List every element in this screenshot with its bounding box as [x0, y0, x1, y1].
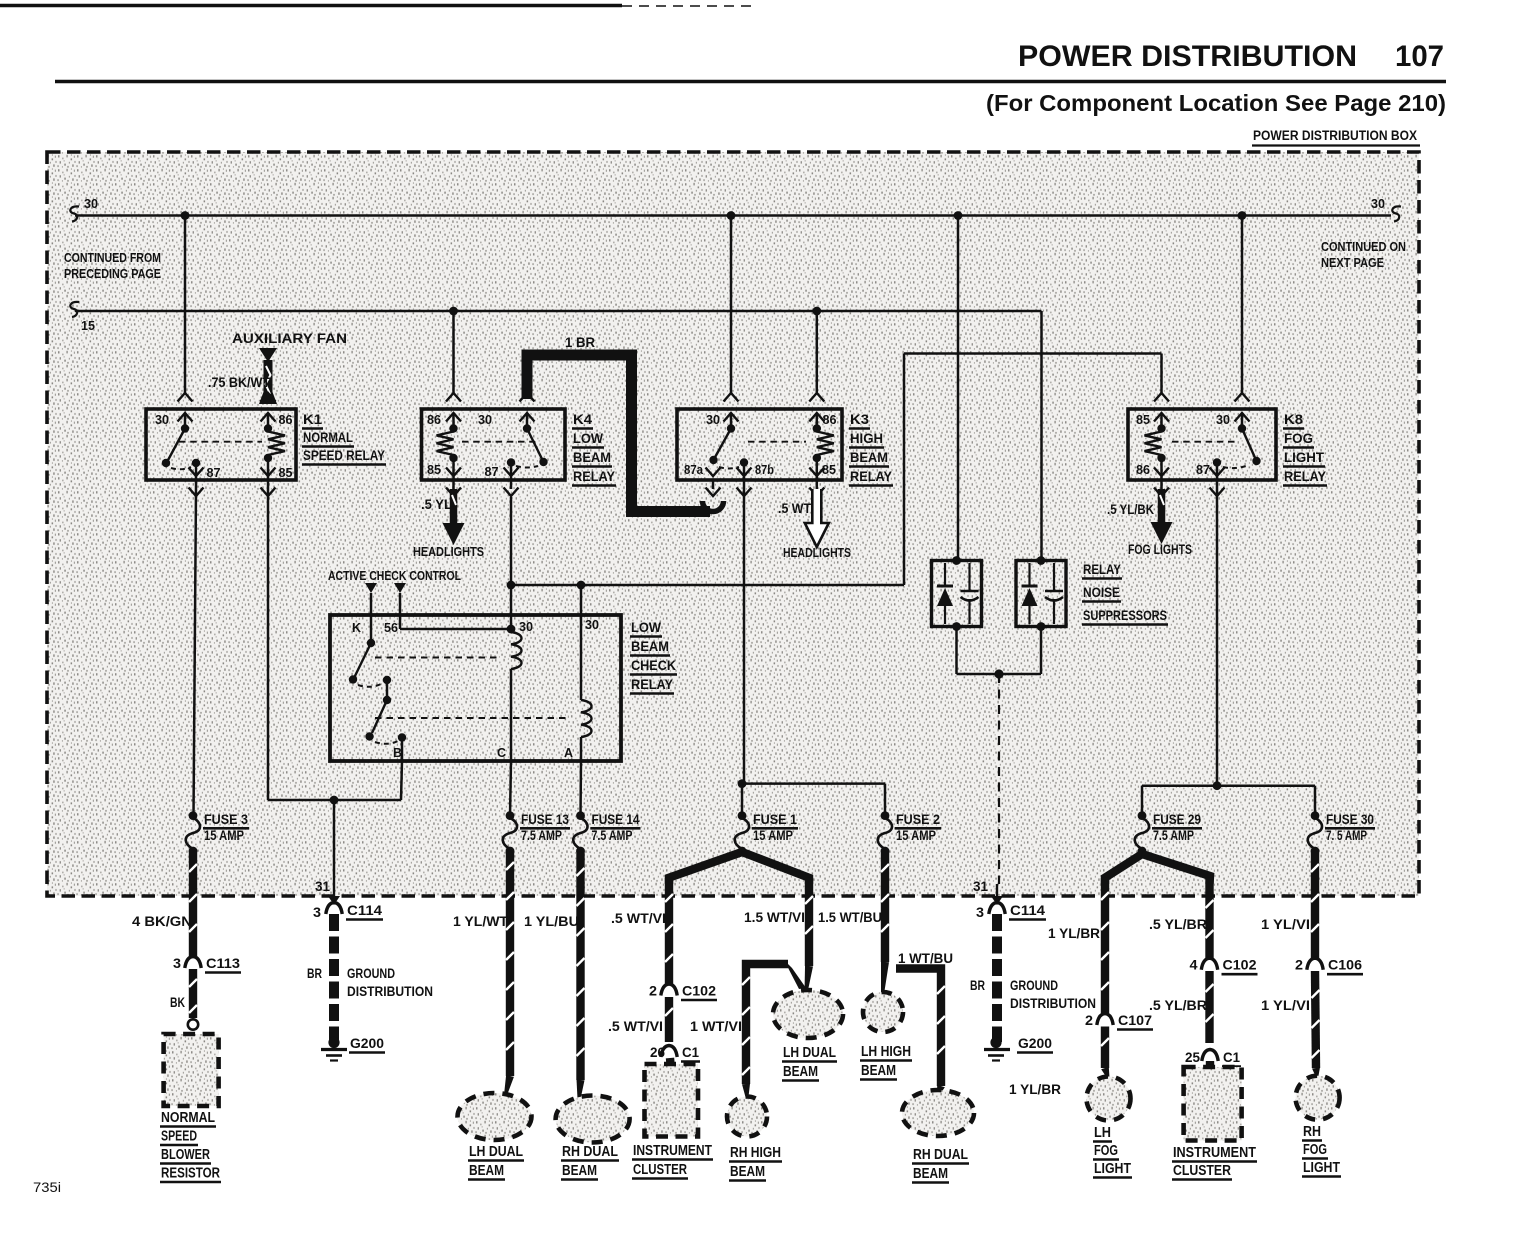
svg-text:1 WT/VI: 1 WT/VI [690, 1019, 742, 1034]
svg-text:K4: K4 [573, 411, 592, 427]
svg-text:C106: C106 [1328, 958, 1363, 973]
svg-text:RH HIGH: RH HIGH [730, 1145, 781, 1161]
svg-text:.5 YL/BK: .5 YL/BK [1107, 502, 1154, 517]
svg-text:SPEED RELAY: SPEED RELAY [303, 447, 386, 463]
svg-text:LOW: LOW [573, 430, 604, 446]
svg-text:7.5 AMP: 7.5 AMP [592, 828, 633, 843]
svg-text:(For Component Location See Pa: (For Component Location See Page 210) [986, 90, 1446, 116]
svg-text:BEAM: BEAM [913, 1166, 948, 1182]
svg-text:.5 WT/VI: .5 WT/VI [611, 911, 666, 926]
svg-text:15: 15 [81, 319, 95, 333]
svg-text:1 YL/VI: 1 YL/VI [1261, 998, 1310, 1013]
svg-text:RELAY: RELAY [850, 468, 893, 484]
svg-text:FUSE 3: FUSE 3 [204, 812, 248, 827]
svg-text:C1: C1 [682, 1045, 699, 1060]
svg-text:C102: C102 [1223, 958, 1257, 973]
svg-text:85: 85 [279, 466, 293, 480]
svg-text:LOW: LOW [631, 619, 662, 635]
svg-text:.5 YL: .5 YL [421, 497, 452, 512]
svg-text:C114: C114 [1010, 903, 1046, 918]
svg-text:AUXILIARY FAN: AUXILIARY FAN [232, 331, 347, 346]
svg-text:1 BR: 1 BR [565, 335, 595, 350]
svg-text:RELAY: RELAY [631, 676, 674, 692]
svg-text:HEADLIGHTS: HEADLIGHTS [783, 546, 851, 560]
svg-text:30: 30 [585, 618, 599, 632]
svg-text:1 YL/VI: 1 YL/VI [1261, 917, 1310, 932]
svg-text:SUPPRESSORS: SUPPRESSORS [1083, 607, 1167, 623]
svg-text:C: C [497, 746, 506, 760]
svg-text:30: 30 [84, 197, 98, 211]
svg-text:B: B [393, 746, 402, 760]
svg-text:31: 31 [315, 879, 330, 894]
svg-text:FOG LIGHTS: FOG LIGHTS [1128, 542, 1192, 557]
svg-text:FUSE 29: FUSE 29 [1153, 812, 1201, 827]
svg-text:BEAM: BEAM [861, 1063, 896, 1079]
svg-text:BR: BR [307, 966, 322, 981]
svg-text:HIGH: HIGH [850, 430, 883, 446]
svg-text:25: 25 [1185, 1050, 1200, 1065]
svg-text:C102: C102 [682, 984, 716, 999]
svg-text:LH DUAL: LH DUAL [469, 1144, 523, 1160]
svg-text:1 YL/WT: 1 YL/WT [453, 914, 509, 929]
svg-text:RH DUAL: RH DUAL [913, 1147, 968, 1163]
svg-text:FOG: FOG [1303, 1142, 1327, 1158]
svg-text:LH: LH [1094, 1125, 1111, 1141]
svg-text:85: 85 [1136, 413, 1150, 427]
svg-text:BEAM: BEAM [562, 1163, 597, 1179]
svg-text:DISTRIBUTION: DISTRIBUTION [347, 984, 433, 999]
svg-text:G200: G200 [350, 1036, 384, 1051]
svg-text:PRECEDING PAGE: PRECEDING PAGE [64, 267, 161, 281]
svg-text:56: 56 [384, 621, 398, 635]
svg-text:K1: K1 [303, 411, 322, 427]
svg-text:BEAM: BEAM [631, 638, 669, 654]
svg-text:INSTRUMENT: INSTRUMENT [633, 1143, 712, 1159]
svg-text:1 WT/BU: 1 WT/BU [898, 951, 953, 966]
svg-text:3: 3 [173, 956, 182, 971]
svg-text:.5 YL/BR: .5 YL/BR [1149, 917, 1207, 932]
svg-text:87a: 87a [684, 463, 704, 477]
svg-text:NORMAL: NORMAL [161, 1110, 215, 1126]
svg-text:30: 30 [1216, 413, 1230, 427]
svg-text:RELAY: RELAY [1284, 468, 1327, 484]
svg-text:ACTIVE CHECK CONTROL: ACTIVE CHECK CONTROL [328, 569, 461, 583]
svg-text:C107: C107 [1118, 1013, 1152, 1028]
svg-text:30: 30 [478, 413, 492, 427]
svg-text:30: 30 [519, 620, 533, 634]
svg-text:CHECK: CHECK [631, 657, 676, 673]
svg-text:86: 86 [823, 413, 837, 427]
svg-text:BEAM: BEAM [573, 449, 611, 465]
svg-text:87: 87 [1196, 463, 1210, 477]
svg-text:87: 87 [485, 465, 499, 479]
svg-text:GROUND: GROUND [347, 966, 395, 981]
svg-text:15 AMP: 15 AMP [896, 828, 936, 843]
svg-text:26: 26 [650, 1045, 665, 1060]
svg-text:LIGHT: LIGHT [1094, 1161, 1131, 1177]
svg-text:FUSE 13: FUSE 13 [521, 812, 569, 827]
svg-text:2: 2 [649, 984, 657, 999]
svg-text:BEAM: BEAM [469, 1163, 504, 1179]
svg-text:4: 4 [1190, 958, 1199, 973]
svg-text:31: 31 [973, 879, 988, 894]
svg-text:.5 YL/BR: .5 YL/BR [1149, 998, 1207, 1013]
svg-text:.75 BK/WT: .75 BK/WT [208, 375, 271, 390]
svg-text:86: 86 [427, 413, 441, 427]
svg-text:CLUSTER: CLUSTER [633, 1162, 687, 1178]
svg-text:C1: C1 [1223, 1050, 1240, 1065]
svg-text:7.5 AMP: 7.5 AMP [1153, 828, 1194, 843]
svg-text:C113: C113 [206, 956, 241, 971]
svg-text:DISTRIBUTION: DISTRIBUTION [1010, 996, 1096, 1011]
svg-text:85: 85 [427, 463, 441, 477]
svg-text:CONTINUED FROM: CONTINUED FROM [64, 251, 161, 265]
svg-text:NORMAL: NORMAL [303, 429, 353, 445]
svg-text:87b: 87b [755, 463, 774, 477]
svg-text:RESISTOR: RESISTOR [161, 1166, 220, 1182]
svg-text:15 AMP: 15 AMP [204, 828, 244, 843]
svg-text:NOISE: NOISE [1083, 584, 1120, 600]
svg-text:86: 86 [279, 413, 293, 427]
svg-text:NEXT PAGE: NEXT PAGE [1321, 256, 1384, 270]
svg-text:CONTINUED ON: CONTINUED ON [1321, 240, 1406, 254]
svg-text:3: 3 [313, 905, 322, 920]
svg-text:.5 WT: .5 WT [778, 501, 812, 516]
svg-text:C114: C114 [347, 903, 383, 918]
svg-text:1.5 WT/VI: 1.5 WT/VI [744, 910, 805, 925]
svg-text:SPEED: SPEED [161, 1129, 197, 1145]
svg-text:LIGHT: LIGHT [1284, 449, 1324, 465]
svg-text:2: 2 [1085, 1013, 1093, 1028]
svg-text:FOG: FOG [1284, 430, 1313, 446]
svg-text:86: 86 [1136, 463, 1150, 477]
svg-text:1.5 WT/BU: 1.5 WT/BU [818, 910, 882, 925]
svg-text:GROUND: GROUND [1010, 978, 1058, 993]
svg-text:7. 5 AMP: 7. 5 AMP [1326, 828, 1367, 843]
svg-text:BLOWER: BLOWER [161, 1147, 210, 1163]
svg-text:POWER DISTRIBUTION BOX: POWER DISTRIBUTION BOX [1253, 128, 1417, 143]
svg-text:POWER DISTRIBUTION: POWER DISTRIBUTION [1018, 40, 1357, 73]
svg-text:FUSE 2: FUSE 2 [896, 812, 940, 827]
svg-text:7.5 AMP: 7.5 AMP [521, 828, 562, 843]
svg-text:LIGHT: LIGHT [1303, 1160, 1340, 1176]
svg-text:BK: BK [170, 995, 185, 1010]
svg-text:CLUSTER: CLUSTER [1173, 1163, 1231, 1179]
svg-text:1 YL/BR: 1 YL/BR [1009, 1082, 1061, 1097]
svg-text:RELAY: RELAY [573, 468, 616, 484]
svg-text:FOG: FOG [1094, 1143, 1118, 1159]
svg-text:G200: G200 [1018, 1036, 1052, 1051]
svg-text:3: 3 [976, 905, 985, 920]
svg-text:.5 WT/VI: .5 WT/VI [608, 1019, 663, 1034]
svg-text:1 YL/BR: 1 YL/BR [1048, 926, 1100, 941]
svg-text:2: 2 [1295, 958, 1303, 973]
svg-text:RELAY: RELAY [1083, 561, 1122, 577]
svg-text:30: 30 [155, 413, 169, 427]
svg-text:30: 30 [706, 413, 720, 427]
svg-text:4 BK/GN: 4 BK/GN [132, 914, 192, 929]
svg-text:FUSE 14: FUSE 14 [592, 812, 640, 827]
svg-text:HEADLIGHTS: HEADLIGHTS [413, 545, 484, 559]
svg-text:BEAM: BEAM [730, 1164, 765, 1180]
svg-text:30: 30 [1371, 197, 1385, 211]
svg-text:735i: 735i [33, 1180, 61, 1195]
svg-text:K: K [352, 621, 361, 635]
svg-text:1 YL/BU: 1 YL/BU [524, 914, 579, 929]
svg-text:FUSE 1: FUSE 1 [753, 812, 797, 827]
svg-text:BR: BR [970, 978, 985, 993]
svg-text:BEAM: BEAM [783, 1064, 818, 1080]
svg-text:INSTRUMENT: INSTRUMENT [1173, 1145, 1256, 1161]
svg-text:87: 87 [207, 466, 221, 480]
svg-text:15 AMP: 15 AMP [753, 828, 793, 843]
svg-text:85: 85 [822, 463, 836, 477]
svg-text:BEAM: BEAM [850, 449, 888, 465]
svg-text:A: A [564, 746, 573, 760]
svg-text:RH: RH [1303, 1124, 1321, 1140]
svg-text:RH DUAL: RH DUAL [562, 1144, 618, 1160]
svg-text:FUSE 30: FUSE 30 [1326, 812, 1374, 827]
svg-text:K3: K3 [850, 411, 869, 427]
svg-text:LH DUAL: LH DUAL [783, 1045, 836, 1061]
svg-text:107: 107 [1395, 40, 1444, 73]
svg-text:LH HIGH: LH HIGH [861, 1044, 911, 1060]
svg-text:K8: K8 [1284, 411, 1303, 427]
